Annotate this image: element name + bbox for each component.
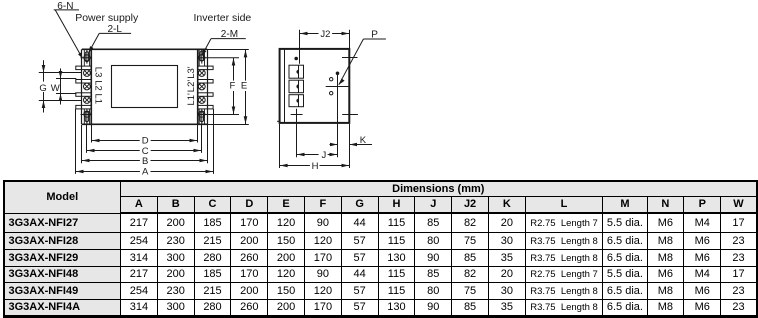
dimension E extension lines <box>199 50 249 125</box>
side view: body box <box>280 49 350 123</box>
svg-text:F: F <box>230 81 236 92</box>
arrowheads dimension W (outside pointing in) <box>59 71 63 79</box>
bottom-left mounting slot <box>81 109 92 124</box>
svg-text:6-N: 6-N <box>57 1 73 12</box>
svg-text:L2': L2' <box>186 80 197 93</box>
side view: inner left panel line <box>284 49 286 123</box>
dimension G extension ticks <box>39 73 81 101</box>
arrowheads dimension J2 <box>300 32 308 36</box>
svg-text:2-L: 2-L <box>108 24 123 35</box>
side view: bottom mounting cross <box>291 109 303 158</box>
dimension C line <box>87 150 202 152</box>
arrowheads dimension A <box>76 170 84 174</box>
screw terminal L1 <box>84 97 91 104</box>
side view: right vertical line through P point <box>337 72 339 158</box>
side view: terminal screw 1 <box>297 65 299 78</box>
right barrier tab 1 <box>198 66 213 70</box>
arrowhead 2-L leader <box>89 46 94 52</box>
dimension A line <box>76 171 214 173</box>
dimension A extension lines <box>76 109 214 174</box>
svg-text:A: A <box>142 167 149 178</box>
dimension E line <box>245 49 247 124</box>
dimension H extension lines <box>280 124 350 168</box>
front view: nameplate rectangle <box>112 66 178 108</box>
screw terminal L2 <box>84 83 91 90</box>
arrowheads dimension H <box>280 164 288 168</box>
screw terminal L2' <box>198 83 205 90</box>
arrowheads dimension E <box>244 50 248 58</box>
dimension F extension lines <box>198 58 239 115</box>
svg-text:Inverter side: Inverter side <box>194 12 252 24</box>
dimension C extension lines <box>87 125 202 153</box>
screw terminal L1' <box>198 97 205 104</box>
side view: terminal screw 2 <box>297 80 299 93</box>
dimension J2 extension lines <box>300 30 350 64</box>
screw terminal L3 <box>84 70 91 77</box>
dimension B extension lines <box>82 125 208 163</box>
arrowhead 6-N leader <box>78 52 83 58</box>
arrowheads dimension F <box>232 58 236 66</box>
dimension K line segments <box>330 144 373 146</box>
white gaps for dimension letters <box>39 29 332 177</box>
dimension D extension lines <box>92 125 198 143</box>
dimension G line <box>43 60 45 112</box>
top-left mounting slot <box>81 49 92 63</box>
top-right mounting slot <box>199 49 205 63</box>
svg-text:J: J <box>322 150 327 161</box>
front view: main body outline <box>91 49 197 124</box>
side view: dot on P line <box>336 72 340 76</box>
right barrier tab 3 <box>198 93 213 97</box>
left barrier tab 1 <box>76 66 92 70</box>
screw terminal L3' <box>198 70 205 77</box>
left barrier tab 4 <box>76 105 92 109</box>
arrowheads dimension J <box>297 153 305 157</box>
side view: lower hole circle <box>330 92 333 95</box>
arrowheads dimension K (outside pointing in) <box>330 143 338 147</box>
side view: top mounting hole dot <box>294 57 298 61</box>
side view: upper hole circle <box>330 78 333 81</box>
svg-text:L3: L3 <box>93 67 104 78</box>
arrowhead 2-M leader <box>202 49 207 55</box>
side view: terminal screw 3 <box>297 95 299 107</box>
left barrier tab 3 <box>76 93 92 97</box>
left terminal strip edge <box>81 49 83 124</box>
svg-text:P: P <box>371 29 378 40</box>
side view: plate bottom lip tick <box>277 120 280 122</box>
leader line 6-N <box>54 10 83 58</box>
bottom-left mounting tab walls <box>84 109 89 124</box>
top-right mounting tab walls <box>199 49 204 66</box>
front view: body top and bottom edges over terminal strips <box>82 49 207 124</box>
dimension D line <box>92 140 198 142</box>
svg-text:K: K <box>360 135 367 146</box>
dimension J2 line <box>300 33 350 35</box>
dimension B line <box>82 160 208 162</box>
side view: cross tick at P point <box>326 86 349 88</box>
right barrier tab 4 <box>198 105 213 109</box>
side view: terminal block cell 1 <box>289 65 304 78</box>
side view: top-right stub <box>342 57 358 59</box>
leader line 2-M <box>202 39 246 56</box>
leader line P <box>339 39 386 85</box>
arrowheads dimension C <box>87 149 95 153</box>
svg-text:H: H <box>312 161 319 172</box>
svg-text:L1': L1' <box>186 93 197 106</box>
svg-text:L1: L1 <box>93 94 104 105</box>
arrowhead P leader <box>339 78 345 84</box>
dimension W extension ticks <box>56 79 76 94</box>
svg-text:Power supply: Power supply <box>75 12 139 24</box>
dimension H line <box>280 165 350 167</box>
bottom-right mounting slot <box>199 109 205 124</box>
svg-text:L2: L2 <box>93 80 104 91</box>
side view: terminal block cell 2 <box>289 80 304 93</box>
svg-text:2-M: 2-M <box>221 29 238 40</box>
leader line 2-L <box>89 33 131 52</box>
svg-text:E: E <box>241 81 247 92</box>
svg-text:G: G <box>39 83 46 94</box>
bottom-right mounting tab walls <box>199 109 204 124</box>
svg-text:J2: J2 <box>320 29 330 40</box>
top-left mounting tab walls <box>84 49 89 66</box>
dimension J line <box>297 154 338 156</box>
svg-text:W: W <box>51 83 60 94</box>
arrowheads dimension G (outside pointing in) <box>42 65 46 73</box>
arrowheads dimension D <box>92 139 100 143</box>
svg-text:B: B <box>142 156 148 167</box>
dimension F line <box>233 58 235 115</box>
arrowheads dimension B <box>82 159 90 163</box>
side view: bottom-right stub <box>342 114 358 116</box>
svg-text:L3': L3' <box>186 66 197 79</box>
right terminal strip edge <box>207 49 209 124</box>
left barrier tab 2 <box>76 80 92 84</box>
side view: terminal block cell 3 <box>289 95 304 107</box>
dimension W line <box>60 68 62 104</box>
dimensions table <box>3 180 758 318</box>
right barrier tab 2 <box>198 80 213 84</box>
